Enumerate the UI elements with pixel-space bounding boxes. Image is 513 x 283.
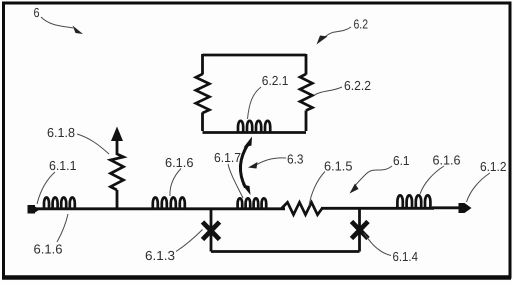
svg-text:6.1: 6.1 xyxy=(393,153,410,168)
svg-text:6.1.8: 6.1.8 xyxy=(47,125,75,140)
wire main bus right of resistor 6.1.5 xyxy=(321,207,434,210)
svg-text:6.1.6: 6.1.6 xyxy=(165,155,194,170)
leader from label 6.1.4 to junction xyxy=(364,233,391,256)
leader from label 6.2.1 to inductor xyxy=(248,87,262,119)
svg-text:6.1.3: 6.1.3 xyxy=(145,248,175,263)
inductor 6.1.6 (right) xyxy=(397,195,430,207)
Josephson junction 6.1.3 (X) xyxy=(203,222,220,240)
leader from label 6.1.6 to second inductor xyxy=(170,169,181,197)
label 6.1.6 (above second inductor) xyxy=(165,155,194,170)
loop 6.2 right wire segments xyxy=(305,54,308,131)
svg-text:6: 6 xyxy=(34,5,40,20)
leader arrow from label 6 xyxy=(41,17,83,34)
svg-text:6.2: 6.2 xyxy=(354,16,369,31)
leader arrow from label 6.1 to bus xyxy=(350,166,393,194)
svg-text:6.1.4: 6.1.4 xyxy=(393,249,419,264)
leader from label 6.1.8 to resistor xyxy=(77,134,109,154)
label 6.2.2 xyxy=(344,78,371,93)
label 6.1 xyxy=(393,153,410,168)
wire lower loop left branch xyxy=(210,209,213,252)
svg-text:6.1.2: 6.1.2 xyxy=(480,159,507,174)
label 6 xyxy=(34,5,40,20)
wire main bus left of resistor 6.1.5 xyxy=(36,207,285,210)
inductor 6.1.6 (second on bus) xyxy=(153,198,185,209)
leader arrow from label 6.3 xyxy=(248,158,286,169)
resistor 6.1.5 xyxy=(282,202,323,214)
label 6.2 xyxy=(354,16,369,31)
label 6.1.3 xyxy=(145,248,175,263)
label 6.3 xyxy=(287,152,304,167)
label 6.1.8 xyxy=(47,125,75,140)
svg-text:6.1.7: 6.1.7 xyxy=(214,150,241,165)
inductor 6.1.7 xyxy=(238,198,267,209)
terminal 6.1.2 (right port arrow) xyxy=(432,203,472,213)
leader from label 6.1.5 to resistor xyxy=(309,172,325,207)
wire lower loop right branch xyxy=(358,209,361,252)
Josephson junction 6.1.4 (X) xyxy=(352,222,369,239)
label 6.1.6 (above right inductor) xyxy=(433,153,461,168)
leader from label 6.2.2 to resistor xyxy=(315,87,343,95)
label 6.1.7 xyxy=(214,150,241,165)
resistor 6.1.8 (vertical, with arrow) xyxy=(111,127,124,209)
leader from label 6.1.3 to junction xyxy=(176,230,203,252)
inductor 6.2.1 xyxy=(238,121,270,133)
leader from label 6.1.1 to terminal xyxy=(37,172,55,204)
label 6.1.6 (below far-left inductor) xyxy=(34,242,63,257)
leader from label 6.1.7 to inductor xyxy=(228,164,243,198)
svg-text:6.1.6: 6.1.6 xyxy=(34,242,63,257)
label 6.1.1 xyxy=(49,158,77,173)
resistor (left side of loop 6.2) xyxy=(196,74,210,113)
loop 6.2 left wire segments xyxy=(201,54,204,131)
svg-text:6.2.1: 6.2.1 xyxy=(262,73,289,88)
svg-text:6.1.1: 6.1.1 xyxy=(49,158,77,173)
svg-text:6.3: 6.3 xyxy=(287,152,304,167)
svg-text:6.1.5: 6.1.5 xyxy=(324,159,353,174)
label 6.1.2 xyxy=(480,159,507,174)
label 6.1.5 xyxy=(324,159,353,174)
loop 6.2 bottom wire xyxy=(203,131,307,134)
wire lower loop bottom xyxy=(211,250,360,253)
svg-text:6.2.2: 6.2.2 xyxy=(344,78,371,93)
leader from label 6.1.6 to right inductor xyxy=(420,166,444,194)
svg-text:6.1.6: 6.1.6 xyxy=(433,153,461,168)
loop 6.2 top wire xyxy=(203,54,307,57)
label 6.1.4 xyxy=(393,249,419,264)
leader from label 6.1.2 to arrow xyxy=(467,173,491,202)
leader from label 6.1.6 to far-left inductor xyxy=(57,214,68,242)
label 6.2.1 xyxy=(262,73,289,88)
mutual coupling arrow 6.3 (double-headed arc) xyxy=(240,137,252,196)
resistor 6.2.2 xyxy=(300,74,312,111)
terminal 6.1.1 (left port square) xyxy=(28,205,40,214)
inductor 6.1.6 (far left) xyxy=(44,198,75,209)
leader arrow from label 6.2 xyxy=(317,27,352,45)
